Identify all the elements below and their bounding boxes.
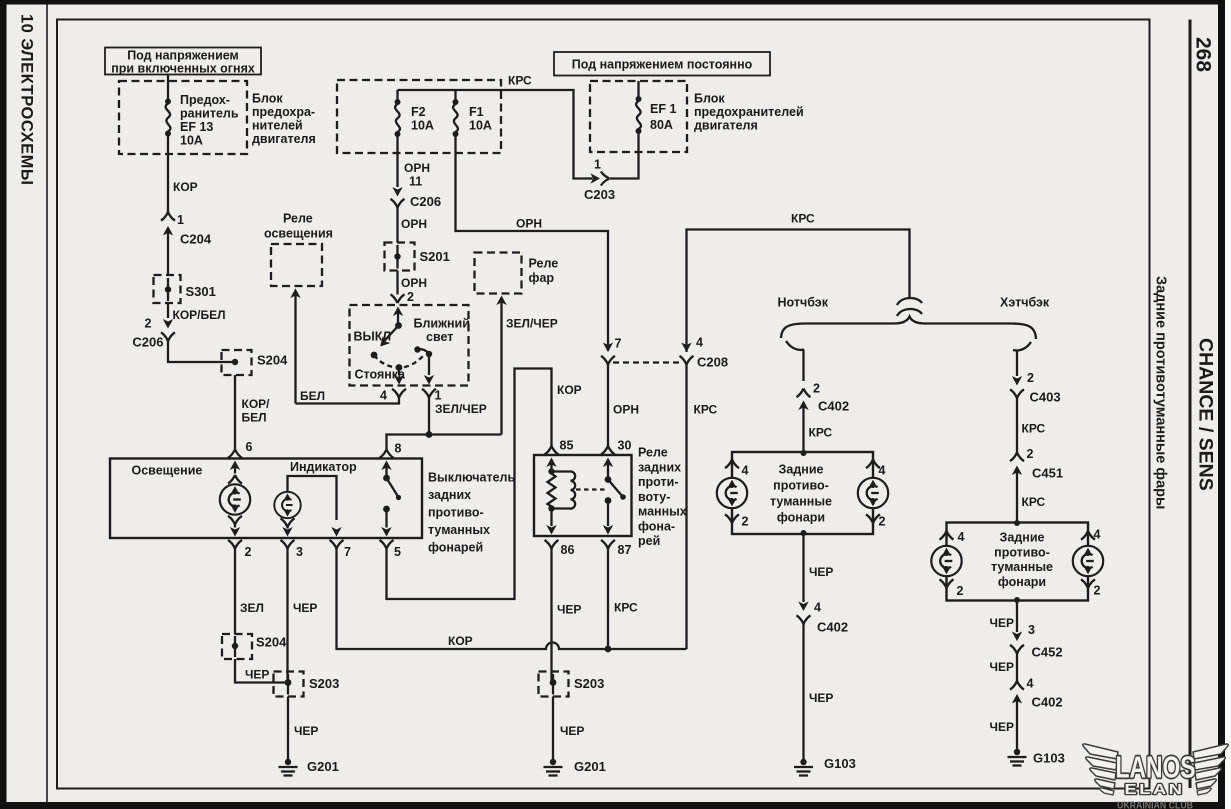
- right wing: [1193, 744, 1228, 759]
- switch pin 6: [228, 440, 253, 474]
- svg-text:задних: задних: [428, 488, 471, 502]
- svg-text:КРС: КРС: [809, 426, 833, 440]
- svg-text:S203: S203: [309, 676, 339, 691]
- svg-text:C402: C402: [1032, 695, 1063, 710]
- wire: switch pin5 under-route to relay 85: [387, 369, 552, 600]
- svg-text:рей: рей: [638, 534, 660, 548]
- svg-text:двигателя: двигателя: [252, 132, 316, 146]
- svg-text:ЧЕР: ЧЕР: [557, 603, 581, 617]
- svg-text:ОРН: ОРН: [613, 403, 639, 417]
- connector C402 pin 4 hatch: [1010, 677, 1063, 753]
- svg-text:3: 3: [296, 545, 303, 559]
- svg-text:КОР: КОР: [557, 383, 582, 397]
- node lamp box bottom: [1014, 597, 1020, 603]
- svg-text:ЧЕР: ЧЕР: [809, 565, 833, 579]
- svg-text:C208: C208: [697, 355, 728, 370]
- svg-text:F2: F2: [411, 105, 426, 119]
- wire KOR/BEL down to switch pin 6: [234, 375, 236, 449]
- svg-text:1: 1: [177, 213, 184, 227]
- svg-text:ELAN: ELAN: [1125, 782, 1185, 798]
- engine fuse block (EF13) dashed box: [119, 81, 247, 154]
- splice S201: [385, 243, 450, 271]
- svg-text:ЧЕР: ЧЕР: [990, 616, 1014, 630]
- outer black frame: left bar: [0, 0, 7, 809]
- label engine fuse box right: [694, 92, 804, 133]
- svg-text:Задние: Задние: [1000, 531, 1045, 545]
- wire BEL: pin 4 left to lighting relay: [296, 398, 400, 404]
- relay coil resistor: [548, 468, 556, 511]
- relay pin 30: [601, 439, 631, 480]
- svg-text:2: 2: [407, 290, 414, 304]
- svg-text:Под напряжением: Под напряжением: [127, 49, 239, 63]
- svg-text:свет: свет: [426, 330, 453, 344]
- relay pin 85 to 86 wire: [546, 509, 556, 535]
- caption box: Pod napryazheniem pri vklyuchennykh ognyakh: [105, 48, 261, 76]
- splice S203 left: [274, 672, 340, 697]
- caption box: Pod napryazheniem postoyanno: [554, 52, 770, 76]
- splice S204: [222, 350, 289, 375]
- svg-text:C403: C403: [1030, 390, 1061, 405]
- label notchback lamps: [770, 463, 832, 525]
- notchback lamp box: [732, 452, 873, 534]
- svg-text:ЧЕР: ЧЕР: [294, 724, 318, 738]
- contact dots Blizhniy svet: [414, 346, 432, 357]
- svg-text:6: 6: [246, 440, 253, 454]
- wire ORN C206 to S201: [396, 208, 398, 243]
- connector C206 pin 11: [391, 175, 442, 210]
- wire S301 to C206: [167, 303, 169, 318]
- svg-text:4: 4: [696, 336, 703, 350]
- svg-text:2: 2: [145, 317, 152, 331]
- illumination lamp chain pin6 to pin2: [220, 475, 250, 537]
- svg-text:S301: S301: [186, 284, 216, 299]
- wire ZEL/CHER up into head lamp relay: [496, 296, 506, 435]
- wire F2 top stub: [396, 90, 398, 100]
- svg-text:БЕЛ: БЕЛ: [300, 389, 325, 403]
- svg-text:2: 2: [1027, 371, 1034, 385]
- wire ORN S201 to headlamp switch pin 2: [396, 271, 398, 295]
- svg-text:4: 4: [1027, 677, 1034, 691]
- svg-text:4: 4: [742, 464, 749, 478]
- ground G201 right: [544, 759, 606, 776]
- wire F1 top stub: [454, 90, 456, 100]
- svg-text:Освещение: Освещение: [132, 464, 203, 478]
- svg-text:фонари: фонари: [998, 575, 1046, 589]
- ground G201 left: [279, 759, 339, 776]
- wire KRS brace to C403: [1016, 350, 1018, 376]
- svg-text:4: 4: [879, 464, 886, 478]
- label hatchback lamps: [991, 531, 1053, 590]
- relay pin 85: [545, 439, 574, 472]
- svg-text:Блок: Блок: [694, 92, 725, 106]
- outer black frame: right bar: [1218, 0, 1225, 809]
- junction dot relay87 feed: [605, 646, 612, 653]
- switch output pin 4 (parking): [380, 364, 406, 402]
- brace right hook: [1013, 342, 1031, 350]
- fuse EF 1: [636, 96, 642, 134]
- headlamp switch pin 2 connector: [391, 290, 415, 304]
- svg-text:ОРН: ОРН: [401, 217, 427, 231]
- wire fuse top stub: [167, 81, 169, 99]
- svg-text:86: 86: [561, 543, 575, 557]
- wire C206 down and right to S204: [168, 341, 232, 362]
- svg-text:Реле: Реле: [529, 257, 559, 271]
- svg-text:Задние: Задние: [779, 463, 824, 477]
- wire KOR: switch pin7 to KRS junction with hop over CHER: [337, 549, 687, 649]
- splice S204 lower: [222, 634, 287, 659]
- label EF 1 80A: [650, 102, 676, 132]
- svg-text:1: 1: [594, 158, 601, 172]
- svg-text:10A: 10A: [469, 119, 492, 133]
- svg-text:ОРН: ОРН: [516, 217, 542, 231]
- headlamp switch dashed box: [350, 305, 469, 386]
- svg-text:Предох-: Предох-: [180, 93, 230, 107]
- brace left hook: [786, 341, 804, 350]
- svg-text:предохра-: предохра-: [252, 105, 315, 119]
- svg-text:8: 8: [395, 442, 402, 456]
- svg-text:10A: 10A: [411, 119, 434, 133]
- switch pin 7 bottom: [330, 540, 352, 559]
- svg-text:G201: G201: [574, 759, 606, 774]
- wire ORN from F2 to connector C206 pin 11: [396, 136, 398, 187]
- svg-text:LANOS: LANOS: [1116, 750, 1196, 785]
- relay pin 86: [545, 540, 575, 557]
- engine fuse block (EF1) dashed box: [590, 81, 687, 152]
- wire KRS bus from C208 riser over to hatch split: [687, 230, 910, 353]
- svg-text:EF 1: EF 1: [650, 102, 676, 116]
- svg-text:4: 4: [814, 601, 821, 615]
- svg-text:КОР: КОР: [173, 180, 198, 194]
- svg-text:ЗЕЛ/ЧЕР: ЗЕЛ/ЧЕР: [435, 402, 487, 416]
- svg-text:S203: S203: [574, 676, 604, 691]
- white scan edge right: [1225, 0, 1231, 809]
- svg-text:C203: C203: [584, 187, 615, 202]
- svg-text:G201: G201: [307, 759, 339, 774]
- svg-text:Выключатель: Выключатель: [428, 471, 515, 485]
- connector C403 pin 2: [1010, 371, 1061, 453]
- svg-text:КРС: КРС: [614, 601, 638, 615]
- left wing: [1083, 744, 1118, 759]
- svg-text:C452: C452: [1032, 645, 1063, 660]
- switch pin 2 bottom: [228, 540, 252, 634]
- relay switch contact: [603, 476, 626, 534]
- wire EF1 down to C203: [610, 133, 639, 179]
- svg-text:Реле: Реле: [283, 212, 313, 226]
- hatchback left fog lamp: [931, 530, 964, 598]
- wire ZEL/CHER pin 1 down to junction: [428, 398, 430, 435]
- relay pin 87: [601, 540, 631, 557]
- svg-text:F1: F1: [469, 105, 484, 119]
- svg-text:КОР/БЕЛ: КОР/БЕЛ: [173, 308, 226, 322]
- svg-text:фар: фар: [529, 271, 555, 285]
- indicator feed wire to pin 7: [331, 527, 341, 537]
- hatchback right fog lamp: [1073, 528, 1103, 598]
- svg-text:КРС: КРС: [791, 212, 815, 226]
- wire EF1 top stub: [637, 81, 639, 97]
- svg-text:268: 268: [1192, 37, 1215, 72]
- svg-text:ЧЕР: ЧЕР: [560, 724, 584, 738]
- svg-text:C206: C206: [410, 194, 441, 209]
- svg-text:C206: C206: [132, 335, 163, 350]
- fog switch contact pin 8: [380, 442, 402, 537]
- wire ZEL/CHER junction to fog switch pin 8 and to head lamp relay: [387, 435, 502, 450]
- svg-text:G103: G103: [1033, 751, 1065, 766]
- svg-text:фона-: фона-: [638, 520, 675, 534]
- wire KRS brace to C402: [802, 350, 804, 382]
- svg-text:EF 13: EF 13: [180, 120, 213, 134]
- svg-text:КРС: КРС: [508, 74, 532, 88]
- svg-text:C451: C451: [1032, 466, 1063, 481]
- bus inside fuse box to C203 drop: [398, 90, 590, 179]
- wire break symbol: [897, 298, 922, 316]
- wire ORN C208 to relay 30: [607, 365, 609, 447]
- svg-text:10A: 10A: [180, 134, 203, 148]
- svg-text:при включенных огнях: при включенных огнях: [111, 62, 255, 76]
- svg-text:CHANCE / SENS: CHANCE / SENS: [1195, 338, 1217, 491]
- fog switch box: [110, 459, 422, 539]
- ground G103 right: [1008, 749, 1065, 766]
- svg-text:S201: S201: [420, 249, 450, 264]
- splice S301: [154, 275, 216, 303]
- right page divider line: [1189, 20, 1192, 789]
- indicator bracket: [288, 476, 337, 520]
- label fuse EF 13 10A: [180, 93, 239, 148]
- svg-text:C204: C204: [180, 232, 212, 247]
- svg-text:85: 85: [560, 439, 574, 453]
- node wire to box: [801, 450, 807, 456]
- svg-text:проти-: проти-: [638, 475, 678, 489]
- svg-text:КОР/: КОР/: [242, 397, 271, 411]
- relay coil winding: [552, 472, 576, 509]
- svg-text:C402: C402: [817, 620, 848, 635]
- svg-text:10 ЭЛЕКТРОСХЕМЫ: 10 ЭЛЕКТРОСХЕМЫ: [18, 14, 36, 186]
- svg-text:ОРН: ОРН: [401, 276, 427, 290]
- svg-text:ЗЕЛ/ЧЕР: ЗЕЛ/ЧЕР: [506, 317, 558, 331]
- wire BEL up into lighting relay: [290, 289, 300, 404]
- wire CHER relay 86 down to S203: [550, 549, 552, 683]
- svg-text:освещения: освещения: [264, 227, 333, 241]
- svg-text:ранитель: ранитель: [180, 107, 239, 121]
- svg-text:5: 5: [394, 545, 401, 559]
- svg-text:КРС: КРС: [1022, 495, 1046, 509]
- svg-text:ЧЕР: ЧЕР: [809, 691, 833, 705]
- svg-text:80A: 80A: [650, 118, 673, 132]
- switch pin 3 bottom: [281, 540, 304, 683]
- label KOR/BEL two lines: [242, 397, 271, 425]
- label Blizhniy svet: [414, 317, 470, 345]
- notchback left fog lamp: [717, 460, 749, 529]
- outer black frame: bottom bar: [0, 802, 1225, 809]
- split brace: [781, 317, 1036, 340]
- connector C203 pin 1: [584, 158, 615, 203]
- sidebar divider line: [46, 4, 48, 802]
- switch output pin 1 (low beam): [422, 354, 442, 403]
- svg-text:фонари: фонари: [777, 511, 825, 525]
- wire KRS C208-4 down to lamp feed corner: [685, 365, 687, 650]
- dashed connector tie C208: [613, 361, 682, 363]
- connector C208 pin 4: [680, 336, 729, 370]
- svg-text:2: 2: [1027, 447, 1034, 461]
- wire KOR from fuse down to C204: [167, 135, 169, 212]
- svg-text:7: 7: [344, 545, 351, 559]
- wire CHER down from lamp box: [802, 534, 804, 602]
- svg-text:2: 2: [813, 382, 820, 396]
- svg-text:2: 2: [245, 545, 252, 559]
- connector C204 pin 1: [161, 212, 212, 275]
- svg-text:туманных: туманных: [428, 523, 490, 537]
- wire caption box to fuse block: [167, 75, 169, 82]
- svg-text:КОР: КОР: [448, 634, 473, 648]
- svg-text:G103: G103: [824, 756, 856, 771]
- svg-text:туманные: туманные: [770, 495, 832, 509]
- connector C402 pin 4 bottom: [797, 601, 849, 763]
- svg-text:1: 1: [435, 389, 442, 403]
- svg-text:Индикатор: Индикатор: [290, 460, 357, 474]
- svg-text:Под напряжением постоянно: Под напряжением постоянно: [572, 58, 753, 72]
- svg-text:воту-: воту-: [638, 490, 670, 504]
- wire CHER S203 to ground G201 right: [552, 697, 554, 763]
- svg-text:30: 30: [618, 439, 632, 453]
- connector C208 pin 7: [601, 337, 622, 365]
- wire CHER S203 to ground G201: [287, 697, 289, 763]
- fuse F1: [453, 99, 459, 137]
- switch contact from pin 2: [371, 307, 404, 359]
- wire KRS relay 87 down to junction: [607, 549, 609, 649]
- svg-text:S204: S204: [256, 635, 287, 650]
- node lamp box bottom: [801, 530, 807, 536]
- svg-text:4: 4: [380, 389, 387, 403]
- svg-text:ЧЕР: ЧЕР: [293, 601, 317, 615]
- svg-text:2: 2: [742, 515, 749, 529]
- svg-text:2: 2: [1094, 584, 1101, 598]
- notchback right fog lamp: [858, 460, 888, 529]
- relay actuation dashed link: [576, 488, 606, 490]
- svg-text:11: 11: [409, 175, 422, 189]
- splice S203 right: [539, 672, 605, 697]
- hatchback lamp box: [947, 523, 1089, 601]
- svg-text:противо-: противо-: [994, 546, 1050, 560]
- svg-text:87: 87: [618, 543, 632, 557]
- indicator lamp: [274, 492, 300, 537]
- svg-text:нителей: нителей: [252, 119, 303, 133]
- svg-text:Блок: Блок: [252, 92, 283, 106]
- fuse EF 13: [165, 99, 171, 137]
- junction node ZEL/CHER: [426, 431, 433, 438]
- svg-text:БЕЛ: БЕЛ: [242, 411, 267, 425]
- connector C206 pin 2 (left): [132, 317, 175, 350]
- svg-text:фонарей: фонарей: [428, 541, 483, 555]
- label F2 10A: [411, 105, 434, 133]
- outer black frame: top bar: [0, 0, 1225, 5]
- svg-text:Задние противотуманные фары: Задние противотуманные фары: [1153, 276, 1169, 509]
- connector C402 pin 2 top: [797, 382, 850, 453]
- label F1 10A: [469, 105, 492, 133]
- wire CHER S204 to S203: [235, 659, 285, 683]
- svg-text:3: 3: [1028, 623, 1035, 637]
- label fog lamp relay: [638, 446, 687, 549]
- svg-text:Ближний: Ближний: [414, 317, 470, 331]
- label engine fuse box: [252, 92, 316, 147]
- svg-text:Нотчбэк: Нотчбэк: [778, 296, 829, 310]
- svg-text:ЧЕР: ЧЕР: [990, 720, 1014, 734]
- svg-text:предохранителей: предохранителей: [694, 105, 804, 119]
- node wire to box: [1014, 520, 1020, 526]
- svg-text:UKRAINIAN CLUB: UKRAINIAN CLUB: [1117, 801, 1193, 809]
- switch travel dashed arc: [374, 355, 423, 368]
- svg-text:противо-: противо-: [773, 479, 829, 493]
- wire ORN from F1 down and across (bus to C208 pin7): [456, 136, 609, 351]
- svg-text:Реле: Реле: [638, 446, 668, 460]
- svg-text:ЗЕЛ: ЗЕЛ: [240, 601, 264, 615]
- svg-text:2: 2: [957, 584, 964, 598]
- svg-text:7: 7: [615, 337, 622, 351]
- svg-text:ЧЕР: ЧЕР: [245, 668, 269, 682]
- svg-text:S204: S204: [257, 353, 288, 368]
- svg-text:задних: задних: [638, 461, 681, 475]
- svg-text:противо-: противо-: [428, 506, 484, 520]
- fuse F2: [395, 99, 401, 137]
- svg-text:ВЫКЛ: ВЫКЛ: [354, 330, 392, 344]
- head lamp relay (Rele far) dashed box: [475, 253, 559, 294]
- connector C451 pin 2: [1010, 447, 1063, 522]
- svg-text:ЧЕР: ЧЕР: [990, 660, 1014, 674]
- switch pin 5 bottom: [380, 540, 402, 559]
- svg-text:ОРН: ОРН: [404, 161, 430, 175]
- svg-text:4: 4: [958, 530, 965, 544]
- svg-text:манных: манных: [638, 505, 687, 519]
- svg-text:туманные: туманные: [991, 560, 1053, 574]
- svg-text:КРС: КРС: [1022, 422, 1046, 436]
- fuse block F2/F1 dashed box: [337, 80, 501, 153]
- label fog switch: [428, 471, 515, 555]
- ground G103 left: [794, 756, 856, 776]
- svg-text:C402: C402: [818, 399, 849, 414]
- svg-text:КРС: КРС: [694, 403, 718, 417]
- svg-text:4: 4: [1094, 528, 1101, 542]
- relay box: [534, 455, 632, 536]
- svg-text:2: 2: [879, 515, 886, 529]
- svg-text:двигателя: двигателя: [694, 119, 758, 133]
- wire CHER from lamp box: [1016, 601, 1018, 633]
- lighting relay (Rele osveshcheniya) dashed box: [264, 212, 333, 287]
- connector C452 pin 3: [1010, 623, 1063, 681]
- svg-text:Хэтчбэк: Хэтчбэк: [1000, 296, 1050, 310]
